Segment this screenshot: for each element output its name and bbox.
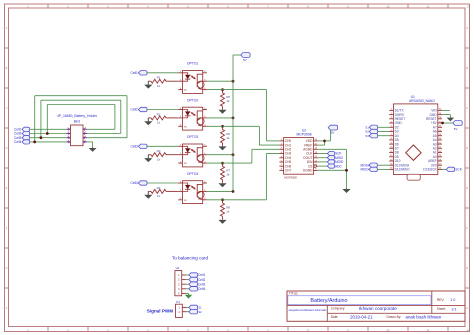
svg-text:E: E (6, 186, 8, 190)
svg-text:DGND: DGND (303, 169, 313, 173)
wire P1 pin2 to S2 flag (187, 311, 189, 313)
svg-text:Cell3: Cell3 (198, 282, 205, 286)
svg-text:5V: 5V (243, 58, 247, 62)
resistor R7 1k pulldown (221, 163, 231, 183)
svg-text:Sheet:: Sheet: (437, 307, 446, 311)
netflag Cell2 (balancing) (189, 277, 206, 281)
wire H1 pin2 to Cell2 flag (186, 279, 189, 281)
svg-text:OPTO2: OPTO2 (187, 98, 199, 102)
resistor R6 1k pulldown (221, 126, 231, 146)
wire U2 VREF to 5V (318, 141, 325, 145)
wire middle loop BH1 right pin to Cell3 net (41, 100, 121, 138)
netflag Cell1 (opto input) (131, 71, 147, 75)
junction on Cell3 wire (40, 136, 43, 139)
wire OPTO2 collector to 5V rail (207, 117, 233, 119)
junction AGND/DGND (345, 169, 348, 172)
svg-text:B: B (466, 66, 468, 70)
wire Cell3 pad to OPTO3 anode (147, 145, 178, 147)
junction emitter OPTO4 at R8 (221, 198, 224, 201)
netflag S1 (189, 305, 202, 309)
module U1 ARDUINO_NANO (389, 95, 442, 180)
title block (287, 291, 465, 321)
svg-text:ARDUINO_NANO: ARDUINO_NANO (409, 99, 435, 103)
wire H1 pin1 to Cell1 flag (186, 274, 189, 276)
svg-text:E: E (466, 186, 468, 190)
svg-text:Cell2: Cell2 (198, 278, 205, 282)
svg-text:4P_18650_Battery_Holder: 4P_18650_Battery_Holder (57, 114, 98, 118)
wire Cell2 to BH1 pin2 (30, 133, 67, 135)
wire U2 DGND to ground (318, 169, 347, 171)
ground at U1 (447, 117, 455, 121)
wire U1 +5V to 5V flag (442, 122, 453, 124)
wire MISO to U1 D12 (377, 168, 389, 170)
wire U2 VDD to 5V (318, 140, 325, 142)
wire to 5V flag at U2 (325, 130, 331, 141)
netflag SCK (446, 167, 463, 171)
svg-text:OPTO4: OPTO4 (187, 172, 199, 176)
resistor R8 1k pulldown (221, 200, 231, 220)
svg-text:D13/SCK: D13/SCK (423, 168, 437, 172)
ground at R7 (218, 183, 226, 188)
wire OPTO4 collector to 5V rail (207, 190, 233, 192)
netflag Cell2 (left battery input) (14, 131, 30, 135)
optocoupler OPTO2 (178, 98, 207, 130)
svg-text:C: C (466, 106, 468, 110)
label Signal PWM (147, 309, 173, 314)
svg-text:Cell4: Cell4 (131, 181, 138, 185)
svg-text:Signal PWM: Signal PWM (147, 309, 173, 314)
ground at R2 (144, 118, 152, 125)
svg-text:R3: R3 (157, 149, 161, 153)
svg-text:1k: 1k (157, 157, 161, 161)
wire U2 DOUT to netflag MISO (318, 157, 328, 159)
svg-text:F: F (466, 226, 468, 230)
optocoupler OPTO1 (178, 62, 207, 94)
ground at R6 (218, 146, 226, 151)
resistor R3 1k (148, 149, 178, 161)
svg-text:1k: 1k (157, 121, 161, 125)
wire outer loop BH1 right pin to Cell4 net (35, 96, 127, 142)
svg-text:Cell4: Cell4 (14, 140, 21, 144)
wire OPTO3 emitter to MCP3008 CH2 (207, 149, 280, 163)
netflag 5V (U2 supply) (328, 125, 337, 134)
wire inner loop BH1 right pin to Cell2 net (47, 105, 115, 134)
ground at BH1 (89, 147, 97, 151)
ground at R4 (144, 191, 152, 198)
connector H1 (175, 266, 186, 296)
svg-text:S2: S2 (198, 310, 202, 314)
svg-text:1k: 1k (226, 209, 230, 213)
svg-text:D12/MISO: D12/MISO (395, 168, 410, 172)
ground at R8 (218, 219, 226, 224)
svg-text:R4: R4 (157, 186, 161, 190)
svg-text:Cell1: Cell1 (131, 71, 138, 75)
svg-text:1.0: 1.0 (450, 298, 455, 302)
svg-text:1k: 1k (226, 173, 230, 177)
svg-text:REV:: REV: (437, 298, 445, 302)
wire OPTO2 emitter to MCP3008 CH1 (207, 126, 280, 145)
resistor R2 1k (148, 112, 178, 124)
svg-text:A: A (6, 306, 8, 310)
netflag MISO (327, 156, 343, 160)
wire MOSI to U1 D11 (377, 164, 389, 166)
svg-text:R1: R1 (157, 76, 161, 80)
wire Cell4 to BH1 pin4 (30, 141, 67, 143)
svg-text:2019-04-21: 2019-04-21 (350, 314, 373, 319)
svg-text:CH7: CH7 (285, 169, 292, 173)
netflag MOSI (327, 160, 343, 164)
resistor R1 1k (148, 76, 178, 88)
svg-text:D: D (6, 146, 8, 150)
svg-text:1k: 1k (157, 84, 161, 88)
netflag 5V (opto rail) (241, 53, 250, 62)
svg-text:Cell3: Cell3 (131, 145, 138, 149)
wire OPTO1 collector to 5V rail (207, 80, 233, 82)
wire U2 AGND to ground (318, 149, 347, 188)
wire U1 VIN stub (442, 109, 450, 111)
svg-text:OPTO3: OPTO3 (187, 135, 199, 139)
netflag S2 at U1 D3 (365, 129, 377, 133)
netflag MISO (360, 167, 377, 171)
wire 5V rail for optocouplers (233, 55, 241, 191)
svg-text:ADC: ADC (335, 164, 342, 168)
resistor R4 1k (148, 186, 178, 198)
netflag 5V (U1 supply) (453, 121, 462, 132)
wire BH1 pin5 to ground (87, 142, 92, 148)
junction VDD/VREF (323, 140, 326, 143)
svg-text:Cell4: Cell4 (198, 287, 205, 291)
svg-text:C: C (6, 106, 8, 110)
wire Cell1 to BH1 pin1 (30, 128, 67, 130)
wire U1 GND to ground (442, 115, 450, 118)
svg-text:Date:: Date: (331, 315, 339, 319)
svg-text:Company:: Company: (331, 307, 346, 311)
wire Cell1 pad to OPTO1 anode (147, 72, 178, 74)
junction emitter OPTO2 at R6 (221, 125, 224, 128)
connector P1 (176, 300, 187, 318)
wire Cell2 pad to OPTO2 anode (147, 109, 178, 111)
netflag MOSI (360, 163, 377, 167)
svg-text:TITLE:: TITLE: (289, 292, 299, 296)
junction collector OPTO1 on 5V rail (232, 80, 235, 83)
optocoupler OPTO3 (178, 135, 207, 167)
netflag S3 at U1 D4 (365, 134, 377, 138)
svg-text:To balancing card: To balancing card (172, 256, 208, 261)
resistor R5 1k pulldown (221, 90, 231, 110)
netflag Cell1 (left battery input) (14, 127, 30, 131)
netflag Cell3 (balancing) (189, 282, 206, 286)
svg-text:1k: 1k (226, 99, 230, 103)
svg-text:H1: H1 (176, 266, 180, 270)
wire OPTO3 collector to 5V rail (207, 154, 233, 156)
svg-text:anak buah Ikhwan: anak buah Ikhwan (406, 314, 442, 319)
netflag Cell3 (opto input) (131, 144, 147, 148)
netflag ADC (327, 164, 342, 168)
svg-text:R2: R2 (157, 112, 161, 116)
svg-text:5V: 5V (331, 130, 335, 134)
wire U2 CLK to netflag SCK (318, 153, 328, 155)
svg-text:A: A (6, 26, 8, 30)
netflag Cell2 (opto input) (131, 107, 147, 111)
junction collector OPTO2 on 5V rail (232, 117, 235, 120)
junction on Cell4 wire (33, 141, 36, 144)
svg-text:P1: P1 (176, 300, 180, 304)
netflag Cell4 (balancing) (189, 287, 206, 291)
netflag Cell4 (opto input) (131, 181, 147, 185)
svg-text:1k: 1k (226, 136, 230, 140)
svg-text:1/1: 1/1 (451, 307, 456, 311)
svg-text:NC: NC (184, 200, 188, 202)
svg-text:Cell1: Cell1 (198, 273, 205, 277)
svg-text:A: A (466, 26, 468, 30)
svg-text:NC: NC (184, 90, 188, 92)
netflag SCK (327, 151, 342, 155)
junction on Cell2 wire (46, 132, 49, 135)
optocoupler OPTO4 (178, 172, 207, 204)
ground at H1 (green) (185, 293, 192, 298)
wire P1 pin1 to S1 flag (187, 306, 189, 308)
svg-text:D: D (466, 146, 468, 150)
svg-text:Ikhwan coorporate: Ikhwan coorporate (359, 306, 397, 311)
svg-text:MCP3008: MCP3008 (296, 133, 311, 137)
svg-text:F: F (6, 226, 8, 230)
netflag S1 at U1 D2 (365, 125, 377, 129)
ground at R3 (144, 155, 152, 162)
svg-text:OPTO1: OPTO1 (187, 62, 199, 66)
svg-text:BH1: BH1 (74, 119, 81, 123)
svg-text:Cell2: Cell2 (131, 108, 138, 112)
junction on +5V wire (441, 122, 444, 125)
battery holder BH1 4P_18650_Battery_Holder (57, 114, 98, 146)
wire Cell3 to BH1 pin3 (30, 137, 67, 139)
wire S2 pad to U1 D3 (378, 131, 390, 133)
IC U2 MCP3008 (279, 129, 317, 180)
svg-text:B: B (6, 66, 8, 70)
svg-text:G: G (466, 266, 468, 270)
svg-text:A: A (466, 306, 468, 310)
svg-text:SCK: SCK (455, 168, 462, 172)
junction collector OPTO3 on 5V rail (232, 153, 235, 156)
junction collector OPTO4 on 5V rail (232, 190, 235, 193)
wire S3 pad to U1 D4 (378, 135, 390, 137)
svg-text:S3: S3 (365, 134, 369, 138)
netflag Cell3 (left battery input) (14, 136, 30, 140)
label To balancing card (172, 256, 208, 261)
wire OPTO4 emitter to MCP3008 CH3 (207, 154, 280, 200)
wire OPTO1 emitter to MCP3008 CH0 (207, 90, 280, 141)
ground at U2 (342, 189, 350, 194)
svg-text:1k: 1k (157, 194, 161, 198)
svg-text:5V: 5V (454, 127, 458, 131)
wire S1 pad to U1 D2 (378, 126, 390, 128)
junction emitter OPTO3 at R7 (221, 162, 224, 165)
ground at R5 (218, 109, 226, 114)
wire U1 D13/SCK to netflag SCK (442, 168, 446, 170)
wire H1 pin5 to ground (186, 292, 189, 294)
svg-text:MCP3008: MCP3008 (284, 176, 297, 180)
wire U2 CS to netflag ADC (318, 165, 328, 167)
svg-text:Battery/Arduino: Battery/Arduino (310, 298, 347, 304)
ground at R1 (144, 81, 152, 88)
svg-text:Drawn By:: Drawn By: (387, 315, 402, 319)
netflag Cell1 (balancing) (189, 273, 206, 277)
netflag Cell4 (left battery input) (14, 140, 30, 144)
wire H1 pin4 to Cell4 flag (186, 288, 189, 290)
svg-text:NC: NC (184, 163, 188, 165)
svg-text:MISO: MISO (360, 168, 369, 172)
svg-text:easyeda.com/ikhwanz.schematic: easyeda.com/ikhwanz.schematic (289, 308, 328, 312)
svg-text:G: G (5, 266, 7, 270)
svg-text:NC: NC (184, 126, 188, 128)
wire Cell4 pad to OPTO4 anode (147, 182, 178, 184)
wire H1 pin3 to Cell3 flag (186, 283, 189, 285)
wire U2 DIN to netflag MOSI (318, 161, 328, 163)
junction emitter OPTO1 at R5 (221, 88, 224, 91)
netflag S2 (189, 310, 202, 314)
